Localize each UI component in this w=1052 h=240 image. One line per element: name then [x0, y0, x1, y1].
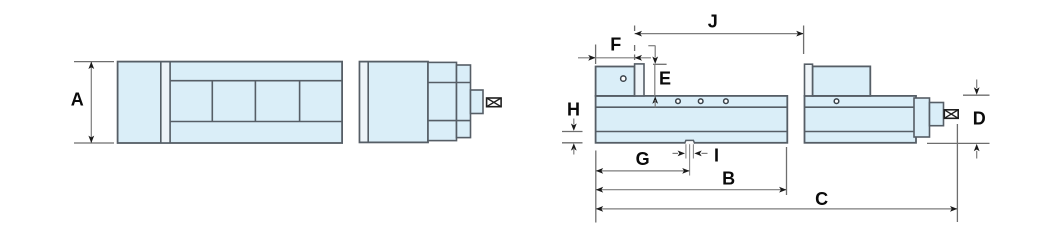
- svg-text:H: H: [567, 99, 580, 119]
- fixed jaw plate strip (plan view): [162, 63, 170, 143]
- screw housing inner lines (plan view): [428, 83, 471, 121]
- screw end symbol (side view): [944, 110, 958, 119]
- dimension J: [635, 11, 804, 60]
- svg-text:G: G: [636, 149, 650, 169]
- svg-text:I: I: [714, 145, 719, 165]
- fixed jaw body (side view): [596, 67, 635, 96]
- dimension H: [562, 99, 583, 154]
- vise bed (side view): [596, 96, 788, 143]
- screw housing step 1 (plan view): [428, 62, 457, 140]
- screw housing step 2 (plan view): [457, 65, 471, 138]
- movable jaw block (plan view): [360, 62, 429, 143]
- dimension A: [71, 62, 114, 143]
- svg-text:J: J: [708, 11, 718, 31]
- fixed jaw plate (side view): [635, 64, 644, 96]
- svg-text:D: D: [973, 109, 986, 129]
- fixed jaw plate lines (plan view): [161, 62, 170, 143]
- bed mounting holes (side view): [676, 99, 729, 104]
- movable jaw plate strip (plan view): [360, 63, 367, 142]
- movable jaw hole (side view): [834, 99, 839, 104]
- screw collar (plan view): [471, 90, 484, 114]
- movable jaw plate line (plan view): [367, 62, 369, 143]
- dimension C: [596, 124, 958, 222]
- bed flange line (side view): [596, 131, 788, 133]
- svg-text:B: B: [722, 168, 735, 188]
- svg-text:E: E: [659, 69, 671, 89]
- svg-text:F: F: [610, 35, 621, 55]
- keyway notch (side view): [685, 140, 695, 144]
- dimension I: [673, 144, 720, 165]
- movable jaw top block (side view): [813, 66, 871, 96]
- dimension B: [596, 147, 787, 195]
- dimension D: [927, 80, 990, 159]
- dimension F: [578, 35, 651, 64]
- dimension G: [596, 144, 690, 222]
- bed way line (side view): [596, 106, 788, 108]
- bed slot dividers (plan view): [212, 81, 299, 122]
- svg-text:A: A: [71, 89, 84, 109]
- dimension E: [648, 46, 671, 108]
- movable jaw body (side view): [805, 96, 917, 143]
- screw collar (side view): [914, 98, 930, 137]
- fixed jaw hole (side view): [621, 76, 626, 81]
- bed slot band (plan view): [170, 81, 342, 122]
- movable jaw plate (side view): [805, 64, 813, 96]
- svg-text:C: C: [815, 189, 828, 209]
- vise bed body (plan view): [118, 62, 343, 143]
- screw end symbol (plan view): [487, 98, 502, 107]
- screw bearing step (side view): [930, 103, 944, 126]
